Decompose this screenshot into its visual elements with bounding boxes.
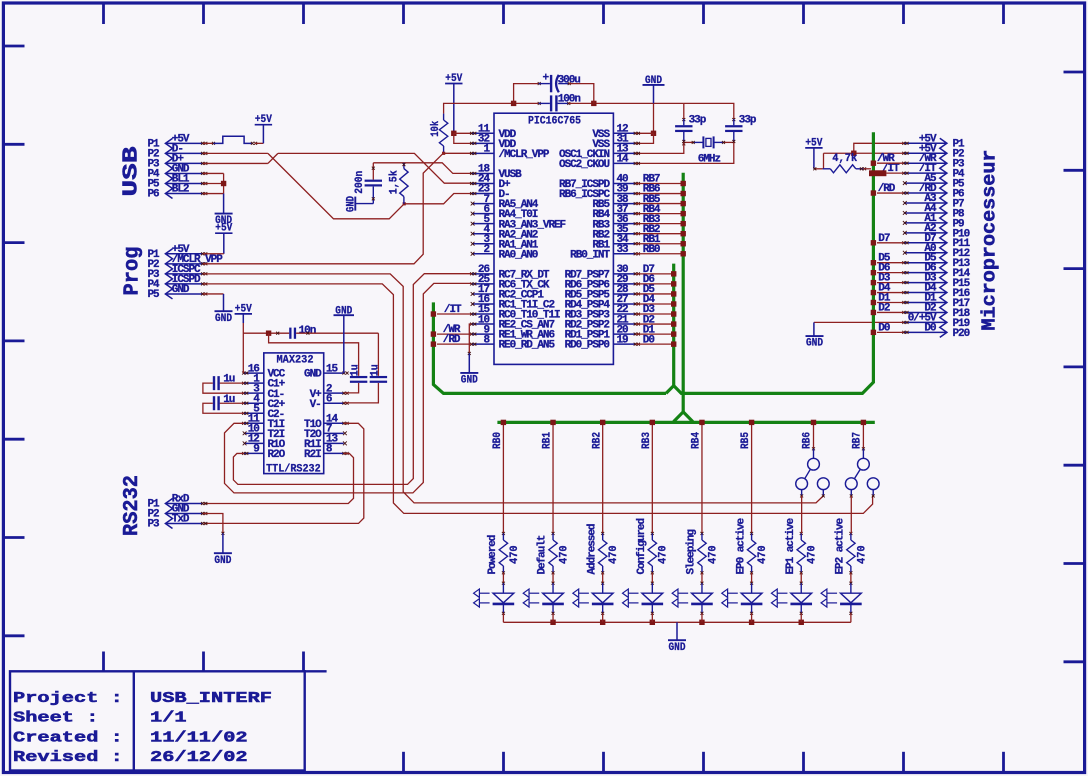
svg-text:+5V: +5V bbox=[805, 137, 822, 149]
PIC right pins bbox=[613, 132, 635, 134]
junction rail col2 bbox=[600, 620, 605, 625]
svg-text:GND: GND bbox=[215, 313, 232, 325]
svg-text:RS232: RS232 bbox=[121, 475, 144, 536]
wire P19 0/+5V to ground bbox=[814, 321, 904, 323]
svg-text:RB3: RB3 bbox=[641, 432, 653, 449]
svg-text:200n: 200n bbox=[354, 171, 366, 194]
svg-text:RB5: RB5 bbox=[740, 432, 752, 449]
svg-text:1,5k: 1,5k bbox=[388, 170, 400, 194]
bus green upper horizontal with peak and right riser bbox=[666, 132, 873, 393]
frame ticks right bbox=[1064, 71, 1084, 74]
node D- at 1,5k bottom bbox=[403, 202, 406, 205]
svg-text:P6: P6 bbox=[147, 189, 159, 201]
LED D col4 bbox=[700, 582, 703, 585]
wire RS232 GND bbox=[203, 514, 223, 534]
svg-text:6: 6 bbox=[326, 393, 332, 405]
wire RE2 to ground bbox=[469, 324, 471, 353]
svg-text:GND: GND bbox=[304, 369, 322, 381]
svg-text:/MCLR_VPP: /MCLR_VPP bbox=[499, 149, 550, 161]
wire USB +5V jog to supply bbox=[203, 142, 214, 144]
resistor R 470 col1 bbox=[552, 532, 555, 535]
op-amp U2 MAX232 box bbox=[264, 353, 324, 474]
wire /MCLR_VPP to 10k node bbox=[203, 153, 443, 264]
bus green vertical RB column bbox=[674, 173, 684, 422]
capacitor C 1u (C2) bbox=[220, 402, 244, 404]
PIC left pins bbox=[472, 132, 494, 134]
wire VUSB bbox=[373, 163, 471, 174]
junction RB5 on bus bbox=[751, 424, 753, 533]
connector RS232 bbox=[165, 499, 172, 529]
MAX232 right pins bbox=[324, 372, 344, 374]
svg-text:RB7: RB7 bbox=[852, 432, 864, 449]
svg-text:TTL/RS232: TTL/RS232 bbox=[266, 463, 321, 475]
ground GND (200n) rotated bbox=[354, 197, 356, 211]
capacitor C 10n bbox=[289, 328, 291, 339]
svg-text:GND: GND bbox=[806, 338, 823, 350]
svg-text:Sleeping: Sleeping bbox=[686, 530, 698, 575]
switch S2 bbox=[862, 424, 864, 449]
junction RB4 on bus bbox=[701, 424, 703, 533]
wire ICSPD loop to RB7 switch bbox=[203, 284, 873, 514]
ground GND (Microprocesseur) bbox=[806, 335, 824, 337]
wire rail 10n bbox=[243, 332, 289, 334]
supply +5V (to Prog P1) bbox=[215, 232, 232, 234]
wire /RD to pin8 bbox=[437, 343, 471, 345]
wire USB GND/BL1/BL2 tie bbox=[203, 172, 224, 174]
wire GND rail y=103 bbox=[558, 102, 569, 104]
supply +5V (USB P1) bbox=[255, 124, 272, 126]
svg-text:P20: P20 bbox=[953, 328, 970, 340]
resistor R 470 col3 bbox=[651, 532, 654, 535]
svg-text:EP2 active: EP2 active bbox=[835, 518, 847, 575]
ground GND (RS232) bbox=[214, 552, 232, 554]
svg-text:Configured: Configured bbox=[636, 519, 648, 575]
svg-text:EP1 active: EP1 active bbox=[785, 518, 797, 575]
wire D- long diagonal to 1,5k node and PIC pin23 bbox=[268, 153, 404, 218]
svg-text:300u: 300u bbox=[558, 74, 581, 86]
wire /WR to pin9 bbox=[437, 333, 471, 335]
junction rail col6 bbox=[799, 620, 804, 625]
svg-text:1u: 1u bbox=[223, 374, 235, 386]
svg-text:470: 470 bbox=[608, 545, 620, 564]
wire /WR to micro bbox=[877, 162, 904, 164]
svg-text:RB6: RB6 bbox=[802, 432, 814, 449]
svg-text:Revised :: Revised : bbox=[13, 749, 123, 766]
bottom rail bbox=[503, 621, 850, 623]
svg-text:1/1: 1/1 bbox=[150, 710, 187, 727]
title block bbox=[10, 671, 305, 770]
wire /IT to pin15 bbox=[437, 313, 471, 315]
junction 300u right bbox=[591, 101, 596, 106]
svg-text:D0: D0 bbox=[924, 322, 936, 334]
svg-text:9: 9 bbox=[253, 444, 259, 456]
svg-text:RB0: RB0 bbox=[492, 432, 504, 449]
LED D col7 bbox=[849, 582, 852, 585]
svg-text:470: 470 bbox=[856, 545, 868, 564]
wire R2O loop to RC7 bbox=[233, 274, 471, 485]
capacitor C 33p (left) bbox=[683, 103, 685, 119]
svg-text:Prog: Prog bbox=[122, 247, 145, 296]
supply +5V (MAX232) bbox=[235, 313, 252, 315]
LED D col3 bbox=[651, 582, 654, 585]
svg-text:26/12/02: 26/12/02 bbox=[150, 749, 248, 766]
wire rail B to 1u bbox=[269, 333, 359, 376]
ground GND (RE2) bbox=[460, 372, 478, 374]
svg-text:33p: 33p bbox=[689, 114, 707, 126]
wire OSC2 pin14 bbox=[636, 142, 734, 163]
svg-text:/RD: /RD bbox=[443, 334, 461, 346]
ground GND (USB) bbox=[215, 213, 233, 215]
bus wires D7..D0 to green bus bbox=[636, 273, 672, 275]
svg-text:PIC16C765: PIC16C765 bbox=[528, 115, 581, 127]
resistor R 470 col5 bbox=[750, 532, 753, 535]
junction rail col5 bbox=[749, 620, 754, 625]
connector USB bbox=[165, 138, 172, 198]
junction rail col1 bbox=[550, 620, 555, 625]
svg-text:+5V: +5V bbox=[255, 114, 272, 126]
wire D+ to PIC pin24 bbox=[278, 153, 472, 183]
op-amp U1 PIC16C765 box bbox=[494, 113, 613, 364]
svg-text:OSC2_CKOU: OSC2_CKOU bbox=[559, 159, 609, 171]
svg-text:RD0_PSP0: RD0_PSP0 bbox=[565, 340, 610, 352]
junction VDD bbox=[451, 131, 456, 136]
LED D col6 bbox=[800, 582, 803, 585]
switch S1 bbox=[813, 424, 815, 449]
svg-text:RB4: RB4 bbox=[691, 432, 703, 449]
capacitor C 300u polarized bbox=[514, 84, 539, 104]
LED D col1 bbox=[552, 582, 555, 585]
svg-text:470: 470 bbox=[558, 545, 570, 564]
wire 4,7k to /IT bbox=[863, 168, 871, 170]
svg-text:RB2: RB2 bbox=[591, 432, 603, 449]
frame ticks bottom bbox=[102, 652, 105, 672]
svg-text:GND: GND bbox=[461, 375, 478, 387]
resistor R 470 col0 bbox=[502, 532, 505, 535]
junction RB3 on bus bbox=[651, 424, 653, 533]
svg-text:+5V: +5V bbox=[215, 223, 232, 235]
svg-text:470: 470 bbox=[807, 545, 819, 564]
svg-text:+5V: +5V bbox=[445, 73, 462, 85]
capacitor C 200n bbox=[372, 163, 374, 180]
svg-text:470: 470 bbox=[658, 545, 670, 564]
junction rail col3 bbox=[650, 620, 655, 625]
svg-text:Microprocesseur: Microprocesseur bbox=[979, 149, 1001, 330]
junction squares on green buses bbox=[681, 181, 686, 186]
junction 300u left bbox=[511, 101, 516, 106]
resistor R 470 col2 bbox=[601, 532, 604, 535]
svg-text:33p: 33p bbox=[739, 114, 757, 126]
svg-text:470: 470 bbox=[707, 545, 719, 564]
wire OSC1 pin13 bbox=[636, 142, 684, 153]
svg-text:/IT: /IT bbox=[444, 304, 462, 316]
wire T1O to TxD bbox=[204, 423, 364, 523]
wire Prog GND bbox=[203, 293, 224, 295]
wire +5V rail y=103 bbox=[444, 103, 539, 113]
svg-text:1u: 1u bbox=[350, 364, 362, 376]
svg-text:Powered: Powered bbox=[487, 535, 499, 574]
svg-text:2: 2 bbox=[483, 244, 489, 256]
bus wires RB7..RB0 to green bus bbox=[636, 183, 681, 185]
svg-text:470: 470 bbox=[509, 545, 521, 564]
svg-text:11/11/02: 11/11/02 bbox=[150, 729, 248, 746]
svg-text:Default: Default bbox=[537, 535, 549, 574]
svg-text:GND: GND bbox=[214, 555, 231, 567]
wire Prog P1 +5V bbox=[203, 253, 224, 255]
svg-text:D0: D0 bbox=[643, 334, 655, 346]
svg-text:USB: USB bbox=[121, 146, 144, 197]
svg-text:MAX232: MAX232 bbox=[277, 354, 314, 366]
MAX232 left pins bbox=[244, 372, 264, 374]
wire R2I to RxD bbox=[204, 453, 354, 503]
resistor R 470 col4 bbox=[700, 532, 703, 535]
svg-text:4,7k: 4,7k bbox=[832, 153, 857, 165]
resistor R 470 col7 bbox=[849, 532, 852, 535]
LED D col0 bbox=[502, 582, 505, 585]
capacitor C 100n bbox=[550, 95, 552, 111]
svg-text:Addressed: Addressed bbox=[586, 524, 598, 574]
capacitor C 1u (C1) bbox=[220, 382, 244, 384]
svg-text:D0: D0 bbox=[878, 322, 890, 334]
svg-text:D2: D2 bbox=[878, 302, 890, 314]
supply +5V (Microprocesseur) bbox=[805, 147, 822, 149]
crystal Q 6MHz bbox=[684, 141, 693, 143]
svg-text:V-: V- bbox=[310, 399, 321, 411]
supply +5V (PIC VDD) bbox=[445, 83, 462, 85]
svg-text:P5: P5 bbox=[147, 289, 160, 301]
junction RB2 on bus bbox=[602, 424, 604, 533]
svg-text:GND: GND bbox=[669, 642, 686, 654]
bus green horizontal lower bbox=[497, 421, 874, 424]
wire T1I loop to RC6 bbox=[225, 283, 472, 493]
wire ICSPC loop to RB6 switch bbox=[203, 274, 823, 503]
svg-text:+5V: +5V bbox=[235, 303, 252, 315]
LED D col2 bbox=[601, 582, 604, 585]
junction BL1 bbox=[221, 181, 226, 186]
junction VSS bbox=[651, 131, 656, 136]
connector Microprocesseur bbox=[940, 138, 947, 337]
capacitor C 33p (right) bbox=[684, 103, 734, 119]
bus green vertical RD column bbox=[672, 264, 675, 386]
svg-text:RE0_RD_AN5: RE0_RD_AN5 bbox=[499, 340, 556, 352]
junction RB0 on bus bbox=[502, 424, 504, 533]
svg-text:10n: 10n bbox=[299, 325, 316, 337]
wires D7..D0 micro side bbox=[877, 242, 904, 244]
resistor R 470 col6 bbox=[800, 532, 803, 535]
ground GND (LED rail) bbox=[676, 622, 678, 640]
svg-text:15: 15 bbox=[326, 363, 339, 375]
svg-text:D7: D7 bbox=[878, 233, 890, 245]
ground GND (Prog) bbox=[215, 310, 233, 312]
capacitor C 1u (V+) bbox=[350, 376, 367, 378]
resistor 1,5k bbox=[403, 163, 405, 169]
svg-text:470: 470 bbox=[757, 545, 769, 564]
svg-text:/WR: /WR bbox=[877, 153, 895, 165]
frame ticks left bbox=[5, 45, 25, 48]
bus green vertical left (IT/WR/RD) bbox=[433, 302, 666, 393]
svg-text:Project :: Project : bbox=[13, 690, 123, 707]
connector Prog bbox=[165, 249, 172, 299]
junction RB1 on bus bbox=[552, 424, 554, 533]
svg-text:10k: 10k bbox=[430, 120, 442, 136]
svg-text:1u: 1u bbox=[223, 394, 235, 406]
svg-text:R2I: R2I bbox=[304, 449, 321, 461]
svg-text:P3: P3 bbox=[147, 519, 160, 531]
LED D col5 bbox=[750, 582, 753, 585]
junction rail col4 bbox=[699, 620, 704, 625]
svg-text:RB1: RB1 bbox=[542, 432, 554, 449]
svg-text:Sheet :: Sheet : bbox=[13, 710, 98, 727]
resistor 4,7k bbox=[814, 168, 823, 170]
svg-text:RB0: RB0 bbox=[643, 244, 660, 256]
junction 10n/1u bbox=[266, 331, 271, 336]
node /MCLR bbox=[442, 152, 445, 155]
svg-text:1u: 1u bbox=[370, 364, 382, 376]
frame ticks top bbox=[102, 4, 105, 25]
capacitor C 1u (V-) bbox=[377, 333, 379, 376]
svg-text:33: 33 bbox=[617, 244, 630, 256]
svg-text:14: 14 bbox=[617, 154, 630, 166]
svg-text:RB0_INT: RB0_INT bbox=[570, 249, 610, 261]
resistor 10k bbox=[443, 114, 445, 120]
svg-text:/RD: /RD bbox=[878, 183, 896, 195]
svg-text:R2O: R2O bbox=[268, 449, 286, 461]
wire /RD to micro bbox=[877, 192, 904, 194]
svg-text:19: 19 bbox=[617, 334, 629, 346]
wire USB D- / D+ crossover bbox=[203, 152, 268, 154]
svg-text:Created :: Created : bbox=[13, 729, 123, 746]
svg-text:EP0 active: EP0 active bbox=[735, 518, 747, 575]
svg-text:USB_INTERF: USB_INTERF bbox=[150, 690, 272, 707]
junction P1/P2 +5V bbox=[851, 151, 856, 156]
svg-text:RA0_AN0: RA0_AN0 bbox=[499, 249, 538, 261]
